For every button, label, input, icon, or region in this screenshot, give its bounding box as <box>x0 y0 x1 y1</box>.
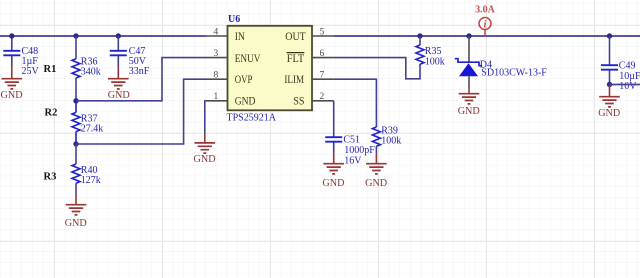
pin 4 IN <box>206 27 245 43</box>
resistor R40 <box>72 164 101 186</box>
node junction C49/rail <box>607 33 612 38</box>
svg-text:4: 4 <box>214 27 219 37</box>
svg-text:ILIM: ILIM <box>284 72 304 86</box>
wire R40 top lead <box>75 144 77 164</box>
wire C49 drop <box>609 36 611 64</box>
svg-text:GND: GND <box>194 154 216 165</box>
ground under C51 <box>322 153 344 190</box>
svg-text:GND: GND <box>598 108 620 119</box>
ground under C49 <box>598 85 620 120</box>
pin 5 OUT <box>285 27 333 43</box>
svg-text:6: 6 <box>320 49 325 59</box>
node junction C47/rail <box>116 33 121 38</box>
svg-text:OVP: OVP <box>235 72 253 86</box>
resistor R39 <box>372 125 401 146</box>
pin 1 GND <box>206 92 256 108</box>
op-amp U1 body: IC U6 TPS25921A <box>227 14 313 124</box>
ground under D4 <box>458 87 480 117</box>
wire ENUV route <box>76 58 206 101</box>
svg-text:33nF: 33nF <box>129 66 150 77</box>
svg-text:TPS25921A: TPS25921A <box>227 112 277 123</box>
svg-text:U6: U6 <box>228 14 240 25</box>
ground under R40 <box>65 205 87 229</box>
svg-text:IN: IN <box>235 29 245 43</box>
svg-text:R1: R1 <box>44 64 57 75</box>
svg-text:340k: 340k <box>81 67 101 78</box>
ground under pin 1 <box>194 143 216 165</box>
svg-text:10V: 10V <box>619 81 637 92</box>
resistor R36 <box>72 56 101 78</box>
svg-text:27.4k: 27.4k <box>81 124 104 135</box>
wire C47 drop <box>117 36 119 50</box>
resistor R37 <box>72 101 103 144</box>
wire R35 top lead <box>419 36 421 45</box>
pin 2 SS <box>293 92 334 108</box>
wire C48 drop <box>11 36 13 50</box>
svg-text:SD103CW-13-F: SD103CW-13-F <box>481 67 547 78</box>
svg-text:OUT: OUT <box>285 29 306 43</box>
svg-text:C51: C51 <box>343 134 360 145</box>
svg-text:2: 2 <box>320 92 325 102</box>
node junction C49 bottom <box>607 82 612 87</box>
svg-text:SS: SS <box>293 94 304 108</box>
svg-text:GND: GND <box>458 106 480 117</box>
resistor R35 <box>416 45 445 68</box>
svg-text:R2: R2 <box>45 108 58 119</box>
wire top rail right <box>334 35 640 37</box>
capacitor C47 <box>110 46 150 77</box>
node junction R37/R40/OVP <box>73 141 78 146</box>
capacitor C51 <box>325 134 375 166</box>
wire SS route <box>333 101 335 137</box>
svg-text:8: 8 <box>214 71 219 81</box>
svg-text:100k: 100k <box>381 136 401 147</box>
current probe 3.0A <box>475 4 496 36</box>
svg-text:GND: GND <box>365 178 387 189</box>
svg-text:R3: R3 <box>44 172 57 183</box>
diode D4 SD103CW-13-F <box>455 36 548 87</box>
node junction C48/rail <box>9 33 14 38</box>
svg-text:GND: GND <box>108 90 130 101</box>
svg-text:GND: GND <box>235 94 256 108</box>
wire R40 bottom lead <box>75 183 77 194</box>
pin 6 FLT <box>287 49 334 65</box>
svg-text:3: 3 <box>214 49 219 59</box>
ground under C47 <box>108 67 130 102</box>
svg-text:ENUV: ENUV <box>235 51 261 65</box>
svg-text:5: 5 <box>320 27 325 37</box>
wire ILIM route <box>334 79 377 127</box>
svg-text:3.0A: 3.0A <box>475 4 496 15</box>
wire R36 bottom <box>75 78 77 101</box>
svg-text:25V: 25V <box>22 66 40 77</box>
wire OVP route <box>76 79 206 144</box>
node junction R36/rail <box>73 33 78 38</box>
ground under C48 <box>1 67 23 102</box>
svg-text:100k: 100k <box>425 57 445 68</box>
wire C49 bottom to right edge <box>610 84 640 86</box>
capacitor C49 <box>601 61 640 92</box>
wire R39 bottom lead <box>375 146 377 153</box>
wire top rail left <box>0 35 206 37</box>
svg-text:GND: GND <box>1 90 23 101</box>
svg-text:16V: 16V <box>344 155 362 166</box>
node junction R35/rail <box>417 33 422 38</box>
svg-text:i: i <box>484 20 487 31</box>
node junction D4/rail <box>466 33 471 38</box>
pin 3 ENUV <box>206 49 261 65</box>
wire GND pin drop <box>205 101 206 134</box>
capacitor C48 <box>3 46 39 77</box>
wire FLT route to R35 <box>334 58 420 79</box>
wire R36 top lead <box>75 36 77 59</box>
pin 8 OVP <box>206 71 253 86</box>
pin 7 ILIM <box>284 71 333 86</box>
node junction R36/R37/ENUV <box>73 98 78 103</box>
svg-text:GND: GND <box>322 178 344 189</box>
svg-text:7: 7 <box>320 71 325 81</box>
ground under R39 <box>365 164 387 189</box>
svg-text:GND: GND <box>65 218 87 229</box>
svg-text:127k: 127k <box>81 175 101 186</box>
svg-text:1: 1 <box>214 92 219 102</box>
